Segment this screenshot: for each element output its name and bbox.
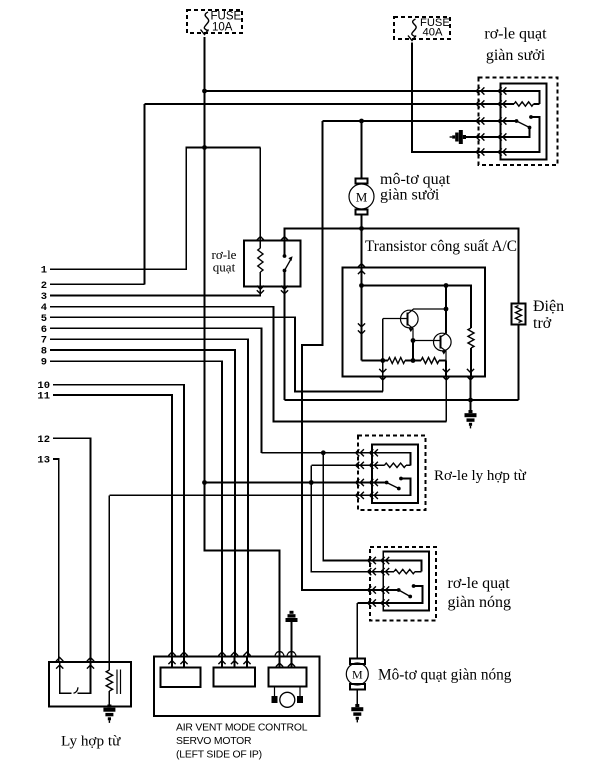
wire row2 bus from wire2 to relay gian suoi: [145, 103, 501, 105]
wire transistor rail1 to R3 top: [362, 286, 472, 329]
connector chevron servo bump1: [276, 663, 283, 667]
connector chevron lyhoptu left b: [56, 665, 63, 669]
svg-text:Ly hợp từ: Ly hợp từ: [61, 733, 121, 750]
wire servo entry x=184: [183, 657, 185, 668]
connector chevrons relay quat coil bottom exit: [257, 286, 264, 294]
fuse F2 FUSE 40A dashed box: [394, 17, 450, 39]
switch blade relay nong: [399, 590, 411, 597]
wire relay nong row4 to motor nong: [357, 602, 383, 604]
wire relay suoi row3 common lead: [501, 120, 517, 122]
coil relay quat (vertical zigzag): [258, 248, 263, 272]
component box "Ly hop tu" (magnetic clutch): [49, 662, 131, 707]
svg-text:(LEFT SIDE OF IP): (LEFT SIDE OF IP): [176, 750, 262, 761]
wire Q1 base riser / left bottom connector: [382, 319, 384, 377]
svg-text:Điện: Điện: [533, 298, 564, 315]
wire servo entry x=222: [221, 657, 223, 668]
connector chevron transistor bottom x=470.5 a: [467, 369, 474, 373]
wire relay quat switch output down: [284, 287, 286, 401]
ground ly hop tu coil: [103, 705, 115, 723]
wire relay quat switch bottom inside: [284, 271, 286, 287]
wire 6 run down to relay ly hop row1: [50, 328, 262, 452]
wire relay lyhop NO bracket to row4: [372, 479, 411, 496]
svg-text:giàn sưởi: giàn sưởi: [486, 47, 546, 64]
relay "ro-le quat" box: [244, 241, 301, 287]
wire 4 riser to transistor box: [445, 377, 447, 422]
wire servo entry x=172: [171, 657, 173, 668]
svg-text:11: 11: [37, 391, 50, 403]
connector chevron relay quat coil top: [257, 237, 264, 241]
servo connector block 3: [269, 668, 307, 687]
contact NO relay suoi: [529, 115, 533, 119]
servo motor symbol: [275, 687, 301, 698]
svg-text:rơ-le quạt: rơ-le quạt: [448, 575, 511, 592]
connector chevron transistor bottom x=382.8 b: [379, 376, 386, 380]
connector chevrons solid edge row y=91: [498, 87, 506, 94]
connector chevron transistor box top entry b: [358, 271, 365, 275]
wire bus y=228.5 relay quat switch to dien tro: [285, 229, 519, 304]
junction fuse feed / relay ly-hop row3: [202, 480, 207, 485]
wire relay quat switch common: [284, 241, 286, 257]
wire 8 run down to servo box: [50, 350, 235, 657]
coil relay suoi (zigzag on row2): [514, 102, 534, 106]
wire bus to transistor box input: [361, 229, 363, 286]
contact NO relay lyhop: [399, 477, 403, 481]
wire fuse feed into servo block3 (already drawn above, riser inside): [279, 551, 281, 668]
motor M2 quat gian nong body: [346, 663, 368, 685]
connector chevron servo x=234.5 b: [231, 661, 238, 665]
wire 3 horizontal from relay quat coil: [50, 287, 260, 296]
wire row3 bus to relay gian suoi: [323, 120, 501, 122]
svg-text:10A: 10A: [212, 22, 233, 34]
wire lyhoptu coil to ground: [108, 691, 110, 705]
wire bottom rail mid segment: [405, 360, 421, 362]
connector chevron mid-wire b: [358, 330, 365, 334]
junction row2-drop / row3: [309, 480, 314, 485]
wire 4 run to transistor box middle bottom connector: [50, 307, 446, 422]
junction Q1 emitter / Q2 base: [411, 338, 416, 343]
connector chevron transistor bottom x=470.5 b: [467, 376, 474, 380]
contact common relay nong: [397, 588, 401, 592]
component box AIR VENT MODE CONTROL SERVO MOTOR: [154, 657, 320, 717]
wire 2 horizontal: [50, 283, 145, 285]
relay "ro-le quat gian nong" dashed enclosure: [370, 547, 436, 621]
connector chevrons lyhop solid edge y=495.4: [370, 492, 378, 499]
contact blade tip relay suoi: [528, 126, 532, 130]
connector chevron transistor bottom x=446.3 a: [443, 369, 450, 373]
wire dien tro bottom to y400 bus: [518, 325, 520, 401]
resistor Dien tro zigzag: [516, 306, 522, 323]
connector bump servo x=279.5: [275, 652, 284, 657]
transistor Q1: [383, 309, 446, 341]
connector chevrons dashed edge row y=121: [476, 117, 484, 124]
switch blade arrowhead relay quat: [288, 256, 292, 261]
svg-text:mô-tơ quạt: mô-tơ quạt: [380, 171, 451, 188]
contact common relay suoi: [515, 119, 519, 123]
svg-text:9: 9: [41, 357, 47, 369]
svg-text:Transistor công suất A/C: Transistor công suất A/C: [365, 238, 517, 255]
fuse F1 FUSE 10A dashed box: [187, 10, 242, 33]
ground motor nong: [351, 704, 363, 722]
junction fuse feed / row1 bus: [202, 89, 207, 94]
svg-text:AIR VENT MODE CONTROL: AIR VENT MODE CONTROL: [176, 723, 308, 734]
connector chevron servo x=184 b: [180, 661, 187, 665]
motor M2 quat gian nong brush bottom: [350, 684, 365, 690]
connector chevron lyhoptu left a: [56, 658, 63, 662]
wire stub to ground: [470, 400, 472, 410]
connector chevrons lyhop dashed edge y=465.3: [356, 462, 364, 469]
fuse F1 symbol: [204, 12, 208, 31]
wire drop row1 to relay nong row1: [323, 453, 383, 561]
connector chevrons nong solid edge y=560.5: [381, 557, 389, 564]
connector chevrons nong solid edge y=603: [381, 599, 389, 606]
resistor R1 (transistor box): [388, 358, 405, 364]
wire Q2 emitter to middle bottom connector: [445, 361, 447, 377]
svg-text:8: 8: [41, 346, 47, 358]
relay "ro-le quat gian suoi" dashed enclosure: [479, 78, 558, 166]
svg-text:Mô-tơ quạt giàn nóng: Mô-tơ quạt giàn nóng: [378, 667, 512, 684]
svg-text:M: M: [356, 190, 368, 205]
wire bottom rail left segment: [362, 360, 389, 362]
connector chevron transistor bottom x=382.8 a: [379, 369, 386, 373]
junction motor suoi bottom / bus: [359, 226, 364, 231]
transistor power unit box: [343, 268, 486, 377]
contact blade tip relay nong: [408, 595, 412, 599]
wire row1 bus fuse1 to relay gian suoi: [205, 90, 501, 92]
connector chevrons dashed edge row y=152: [476, 148, 484, 155]
connector chevrons relay quat switch bottom exit: [281, 286, 288, 294]
resistor R3 (right, in transistor box): [468, 328, 474, 348]
connector chevron transistor box top entry a: [358, 264, 365, 268]
wire transistor left drop to bottom rail: [361, 286, 363, 361]
connector chevron servo x=222 a: [218, 652, 225, 656]
switch blade relay quat: [285, 259, 292, 271]
relay "Ro-le ly hop tu" solid box: [372, 445, 418, 504]
wire relay ly hop row4 from ly hop tu box: [109, 494, 372, 496]
connector chevron lyhoptu right a: [87, 658, 94, 662]
motor M1 quat gian suoi brush bottom: [356, 210, 368, 215]
wire motor suoi bottom lead: [361, 215, 363, 229]
ground (pointing up) above servo box: [286, 611, 298, 622]
wire row2 drop to relay nong row2: [311, 465, 383, 571]
connector chevron servo x=247 b: [243, 661, 250, 665]
wire ground lead servo block3: [291, 622, 293, 668]
connector chevron servo x=234.5 a: [231, 652, 238, 656]
wire R3 bottom lead: [470, 348, 472, 377]
transistor Q2: [413, 333, 451, 360]
junction Q1 collector / riser: [444, 307, 449, 312]
wire 11 run down to servo box: [53, 395, 172, 657]
wire motor nong ground lead: [356, 690, 358, 706]
switch blade relay suoi: [517, 121, 530, 128]
wire relay lyhop common lead: [372, 482, 387, 484]
connector chevrons lyhop solid edge y=465.3: [370, 462, 378, 469]
connector chevron servo bump2: [288, 663, 295, 667]
wire relay suoi blade to row4: [501, 128, 530, 138]
connector chevrons nong dashed edge y=560.5: [368, 557, 376, 564]
wire fuse F1 feed: long vertical x=204.5 down, jog right to servo box: [205, 37, 280, 657]
wire motor nong top lead: [356, 603, 358, 659]
connector bump servo x=291.5: [287, 652, 296, 657]
junction bottom rail / left bottom connector: [380, 358, 385, 363]
svg-text:giàn sưởi: giàn sưởi: [380, 187, 440, 204]
wire row4 to chassis ground: [466, 136, 501, 138]
svg-text:quạt: quạt: [213, 260, 236, 275]
ground (sideways) relay suoi row4: [450, 130, 466, 144]
wire relay lyhop coil leads: [372, 464, 411, 466]
connector chevrons dashed edge row y=104: [476, 100, 484, 107]
contact common relay quat: [283, 254, 287, 258]
wire lyhoptu switch right leg: [78, 662, 91, 693]
wire relay suoi row2 coil leads: [501, 103, 540, 105]
relay "ro-le quat gian nong" solid box: [383, 552, 429, 611]
junction fuse feed / wire1 branch: [202, 145, 207, 150]
ground at junction (470.5,400): [465, 410, 477, 428]
relay "ro-le quat gian suoi" solid box: [501, 84, 547, 160]
connector chevrons nong dashed edge y=571.6: [368, 568, 376, 575]
svg-text:M: M: [352, 668, 363, 682]
motor M1 quat gian suoi brush top: [356, 179, 368, 184]
wire relay ly hop row2: [311, 464, 372, 466]
wire 1 run up to fuse junction then to relay quat coil: [50, 148, 260, 270]
connector chevron lyhoptu right b: [87, 665, 94, 669]
contact blade tip relay lyhop: [397, 487, 401, 491]
switch contact hook lyhoptu: [74, 687, 79, 693]
svg-text:40A: 40A: [423, 27, 443, 39]
wire vertical branch of wire 2: [144, 104, 146, 284]
svg-text:giàn nóng: giàn nóng: [448, 594, 512, 611]
wire 13 run down to ly hop tu box: [53, 459, 59, 662]
connector chevrons solid edge row y=121: [498, 117, 506, 124]
contact bottom relay quat: [283, 269, 287, 273]
wire 9 run down to servo box: [50, 361, 222, 656]
connector chevrons dashed edge row y=137: [476, 133, 484, 140]
wire relay lyhop row1 bracket: [372, 453, 411, 466]
connector chevrons lyhop solid edge y=482.5: [370, 479, 378, 486]
connector chevrons lyhop dashed edge y=452.8: [356, 449, 364, 456]
servo connector block 1: [161, 668, 201, 688]
connector chevrons lyhop solid edge y=452.8: [370, 449, 378, 456]
wire 12 run down to ly hop tu box: [53, 438, 91, 662]
connector chevrons solid edge row y=152: [498, 148, 506, 155]
wire 5 run to transistor box left bottom connector: [50, 317, 383, 391]
wire relay nong common lead: [383, 589, 398, 591]
wire relay nong coil leads: [383, 571, 421, 573]
junction y400 / transistor R3 / ground: [468, 398, 473, 403]
junction row1 / drop to relay nong: [321, 450, 326, 455]
coil relay ly hop: [384, 463, 406, 467]
wire collector riser upper: [445, 286, 447, 310]
servo connector block 2: [214, 668, 256, 687]
connector chevrons nong dashed edge y=590: [368, 586, 376, 593]
wire R3 connector to ground junction: [470, 377, 472, 401]
wire relay suoi row1 to coil bracket: [501, 91, 540, 104]
connector chevron servo x=222 b: [218, 661, 225, 665]
wire relay suoi NO contact bracket to row5: [501, 117, 540, 152]
svg-text:rơ-le quạt: rơ-le quạt: [484, 26, 547, 43]
wire collector riser to Q2: [445, 309, 447, 334]
wire 5 riser to transistor box: [382, 377, 384, 392]
core bars ly hop tu: [116, 670, 118, 695]
junction row3 / motor suoi: [359, 119, 364, 124]
connector chevrons nong solid edge y=590: [381, 586, 389, 593]
connector chevrons solid edge row y=104: [498, 100, 506, 107]
wire relay ly hop row1 from wire6: [262, 452, 373, 454]
connector chevron servo x=172 a: [168, 652, 175, 656]
junction rail1 / Q-collector riser: [444, 283, 449, 288]
wire row3 drop x=322.5 jog to relay gian nong row3: [302, 121, 383, 590]
wire relay nong NO bracket to row4: [383, 586, 422, 603]
wire servo entry x=247: [246, 657, 248, 668]
connector chevron servo x=184 a: [180, 652, 187, 656]
coil ly hop tu (clutch coil): [106, 670, 112, 691]
svg-text:12: 12: [37, 434, 50, 446]
wire relay quat coil bottom inside: [259, 272, 261, 287]
wire relay ly hop row3 from fuse feed: [205, 482, 373, 484]
coil relay nong: [394, 569, 415, 573]
svg-text:trở: trở: [533, 315, 552, 332]
switch blade relay lyhop: [387, 483, 399, 489]
contact common relay lyhop: [385, 481, 389, 485]
wire lyhoptu switch left leg: [60, 662, 72, 693]
svg-text:2: 2: [41, 280, 47, 292]
junction transistor rail1 left: [359, 283, 364, 288]
connector chevron transistor bottom x=446.3 b: [443, 376, 450, 380]
svg-text:13: 13: [37, 455, 50, 467]
connector chevrons lyhop dashed edge y=482.5: [356, 479, 364, 486]
svg-text:SERVO MOTOR: SERVO MOTOR: [176, 736, 252, 747]
connector chevron relay quat switch top: [281, 237, 288, 241]
connector chevrons solid edge row y=137: [498, 133, 506, 140]
connector chevrons lyhop dashed edge y=495.4: [356, 492, 364, 499]
svg-text:1: 1: [41, 265, 47, 277]
connector chevron mid-wire a: [358, 323, 365, 327]
contact NO relay nong: [412, 584, 416, 588]
connector chevrons nong dashed edge y=603: [368, 599, 376, 606]
motor M2 quat gian nong brush top: [350, 659, 365, 665]
connector chevrons dashed edge row y=91: [476, 87, 484, 94]
wire row4 drop to ly hop tu coil: [108, 495, 110, 670]
resistor R2 (transistor box): [421, 358, 439, 364]
fuse F2 symbol: [412, 19, 416, 37]
wire servo entry x=234.5: [234, 657, 236, 668]
resistor "Dien tro" box: [512, 304, 526, 325]
relay "Ro-le ly hop tu" dashed enclosure: [358, 436, 426, 511]
connector chevron servo x=247 a: [243, 652, 250, 656]
wire relay nong row1 bracket: [383, 561, 421, 572]
wire y=400 switch output to dien tro bottom: [285, 399, 519, 401]
wire 7 run down to servo box: [50, 339, 248, 656]
connector chevron servo x=172 b: [168, 661, 175, 665]
svg-text:Rơ-le ly hợp từ: Rơ-le ly hợp từ: [434, 468, 527, 484]
junction bottom rail / Q2 base branch: [411, 358, 416, 363]
wire 10 run down to servo box: [53, 385, 184, 657]
wire bottom rail right segment: [439, 360, 446, 362]
wire relay quat coil top lead from fuse branch: [259, 148, 261, 249]
wire fuse F2 to relay gian suoi row5: [412, 43, 501, 153]
wire motor suoi top lead: [361, 121, 363, 179]
wire Q2 base branch to bottom rail: [412, 341, 414, 361]
connector chevrons nong solid edge y=571.6: [381, 568, 389, 575]
motor M1 quat gian suoi body: [349, 184, 374, 209]
